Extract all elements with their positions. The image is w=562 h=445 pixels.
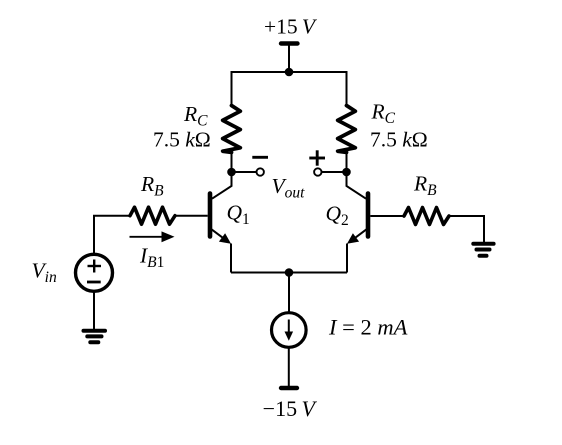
node dot right collector [342, 168, 351, 177]
-15 V terminal bar [281, 386, 297, 390]
transistor Q1 base bar [208, 194, 213, 237]
resistor RB left [130, 207, 175, 224]
svg-text:RC: RC [183, 102, 208, 130]
wire: RC left to collector node [231, 152, 233, 172]
Q2 collector lead [347, 172, 367, 199]
junction dot emitter bus [285, 268, 294, 277]
Q1 collector lead [212, 172, 232, 199]
svg-text:7.5 kΩ: 7.5 kΩ [370, 128, 428, 152]
minus sign of output [252, 156, 268, 159]
wire: Vin to ground [93, 292, 95, 331]
svg-text:+15 V: +15 V [264, 15, 318, 39]
wire: RB right to ground corner [449, 216, 484, 244]
Q1 emitter lead [212, 229, 226, 239]
resistor RC left [223, 106, 241, 153]
ground (left, under Vin) [84, 329, 106, 333]
wire: rail to RC right [346, 71, 348, 106]
svg-text:Q1: Q1 [227, 201, 250, 229]
node dot left collector [227, 168, 236, 177]
Vin minus sign [87, 281, 101, 284]
svg-text:RB: RB [140, 172, 164, 200]
resistor RB right [404, 208, 449, 225]
ground (right) [473, 242, 493, 246]
svg-text:RC: RC [371, 100, 396, 128]
Q1 emitter arrowhead [219, 233, 231, 244]
voltage source Vin circle [76, 254, 113, 291]
wire: emitter bus to current source [288, 273, 290, 314]
svg-text:RB: RB [413, 172, 437, 200]
svg-text:IB1: IB1 [139, 244, 164, 272]
wire: RC right to collector node [346, 152, 348, 172]
svg-text:−15 V: −15 V [263, 396, 318, 421]
wire: plus terminal to right node [322, 171, 347, 173]
output terminal plus (open circle) [314, 168, 321, 175]
Q2 emitter lead [353, 229, 367, 239]
wire: Q2 emitter down [346, 244, 348, 273]
junction dot on top rail [285, 68, 294, 77]
svg-text:Q2: Q2 [326, 202, 349, 230]
svg-text:7.5 kΩ: 7.5 kΩ [153, 128, 211, 152]
wire: top rail [232, 71, 347, 73]
wire: Q2 base wire to RB right [370, 215, 404, 217]
Vin plus sign [88, 265, 102, 267]
current source I circle [272, 313, 307, 348]
wire: +15V bar to top rail [288, 44, 290, 73]
wire: rail to RC left [231, 71, 233, 106]
svg-text:I = 2 mA: I = 2 mA [328, 315, 408, 340]
+15 V supply terminal bar [281, 41, 298, 45]
current arrow IB1 [130, 236, 163, 238]
Q2 emitter arrowhead [347, 233, 359, 244]
wire: current source to -15V bar [288, 347, 290, 388]
current source arrow [288, 320, 290, 333]
svg-text:Vin: Vin [32, 259, 57, 287]
resistor RC right [338, 106, 356, 153]
wire: emitter bus [231, 272, 347, 274]
wire: node to minus terminal [232, 171, 257, 173]
output terminal minus (open circle) [257, 168, 264, 175]
wire: Q1 base wire from RB [175, 215, 208, 217]
svg-text:Vout: Vout [272, 174, 306, 202]
transistor Q2 base bar [366, 194, 371, 237]
wire: Q1 emitter down [230, 244, 232, 273]
wire: base wire to Vin corner [94, 216, 130, 254]
plus sign of output [309, 157, 325, 160]
